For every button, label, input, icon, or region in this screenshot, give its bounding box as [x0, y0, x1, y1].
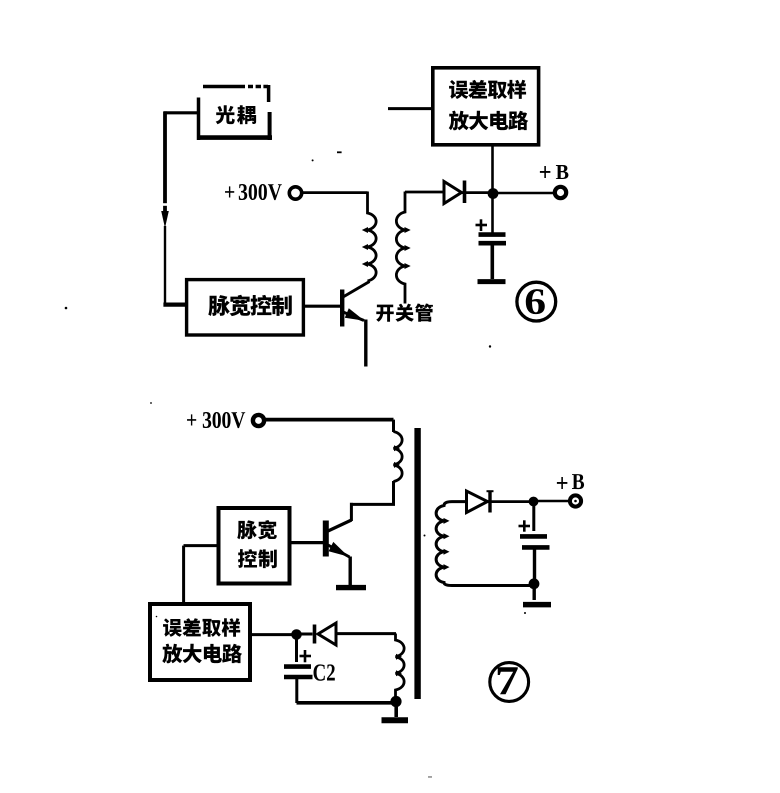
capacitor C3 (fig7 output)	[519, 506, 550, 579]
wire: corner down to winding	[392, 420, 395, 432]
label 光耦 (optocoupler)	[216, 105, 256, 124]
wire: C2 bottom to winding node	[297, 701, 393, 705]
transformer T1 primary winding	[362, 192, 376, 282]
terminal: +300V input (fig7)	[253, 415, 264, 426]
wire: optocoupler left lead	[164, 111, 198, 114]
wire: node to +B terminal	[497, 192, 554, 195]
node: C3 bottom junction	[529, 578, 540, 589]
wire: D3 to +B node	[487, 500, 530, 503]
wire: node to diode D2	[301, 633, 313, 636]
label 误差取样 (line 1)	[449, 80, 526, 99]
node: junction at sense winding bottom	[390, 696, 401, 707]
wire: +300V to transformer primary	[302, 191, 368, 194]
label +300V (fig6)	[225, 184, 282, 200]
terminal: +B output (fig7)	[570, 495, 581, 506]
wire: winding bottom to collector branch	[351, 481, 395, 521]
capacitor C2	[284, 639, 313, 703]
transistor Q1 (switch)	[342, 282, 369, 327]
label +B (fig6)	[540, 165, 569, 179]
box U5: error sampling amplifier (fig7)	[150, 604, 250, 680]
diode D1	[444, 181, 465, 204]
wire: stub into error amp box	[388, 107, 432, 110]
label 脉宽 (line 1)	[237, 520, 277, 539]
wire: Q2 base lead	[290, 541, 324, 544]
wire: node down to capacitor C1	[491, 197, 494, 233]
wire: error amp box down to node	[491, 146, 494, 189]
transformer T2 primary winding	[394, 432, 403, 482]
node: junction at C2 top	[291, 629, 302, 640]
label 放大电路 (line 2)	[449, 111, 529, 131]
diode D2 (pointing left)	[315, 623, 337, 645]
capacitor C1 (electrolytic, fig6)	[476, 219, 507, 243]
wire: T1 secondary top to diode D1	[405, 191, 444, 194]
wire: left vertical feedback line (upper)	[163, 111, 167, 213]
label 放大电路 (line 2)	[162, 644, 242, 664]
terminal: +B output (fig6)	[555, 187, 566, 198]
arrow on feedback wire	[161, 211, 169, 228]
figure number 7 (circled)	[490, 663, 529, 702]
transformer T2 core	[414, 428, 420, 699]
box U3: error sampling amplifier (fig6)	[433, 68, 539, 145]
wire: D2 anode to T2 sense winding	[336, 632, 396, 635]
diode D3	[467, 491, 494, 513]
wire: Q1 emitter down	[364, 320, 367, 367]
node: +B junction (fig7)	[529, 497, 539, 507]
terminal: +300V input (fig6)	[289, 187, 301, 199]
wire: left vertical feedback line (lower)	[164, 226, 166, 304]
label +B (fig7)	[557, 474, 584, 489]
wire: error amp output right	[252, 633, 292, 636]
box U1: optocoupler (broken scanned outline)	[197, 85, 272, 140]
wire: C1 to ground	[490, 245, 494, 279]
wire: node to +B terminal	[538, 500, 569, 503]
transformer T2 secondary winding	[436, 502, 530, 586]
transformer T2 sense winding	[396, 634, 405, 698]
scan dropouts (white notches)	[162, 85, 263, 206]
label 脉宽控制	[208, 295, 291, 316]
ground (fig6)	[478, 279, 506, 284]
label 误差取样 (line 1)	[163, 618, 240, 637]
label C2	[314, 664, 335, 680]
label 控制 (line 2)	[238, 549, 277, 568]
node: junction dot (fig6 output)	[488, 188, 499, 199]
wire: D1 cathode to node	[461, 191, 488, 194]
wire: Q2 emitter down	[349, 557, 352, 586]
box U4: PWM control (fig7)	[219, 508, 290, 584]
scan specks	[65, 151, 526, 777]
wire: PWM input from error amp	[184, 544, 219, 547]
box U2: PWM control (fig6)	[187, 280, 304, 335]
wire: corner into PWM box	[163, 303, 187, 307]
wire: PWM output to Q1 base	[305, 305, 340, 308]
wire: down to error amp box	[182, 546, 185, 603]
label +300V (fig7)	[187, 412, 245, 428]
figure number 6 (circled)	[517, 282, 556, 321]
ground (fig7 left)	[382, 706, 409, 720]
transistor Q2	[326, 520, 352, 557]
transformer T1 secondary winding	[396, 192, 410, 304]
label 开关管 (switching transistor)	[376, 303, 433, 321]
ground (Q2 emitter)	[336, 585, 366, 590]
wire: +300V to T2 primary	[266, 418, 394, 422]
ground (fig7 right)	[523, 588, 551, 605]
